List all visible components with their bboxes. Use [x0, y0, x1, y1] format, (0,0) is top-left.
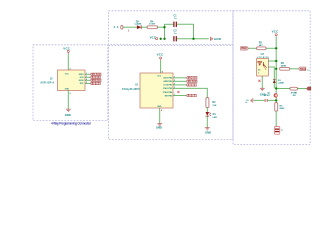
U1 right pin numbers: [174, 76, 175, 96]
svg-text:VCC: VCC: [65, 74, 70, 76]
svg-text:1n: 1n: [245, 102, 247, 104]
no-connect X on pin PB4: [177, 91, 179, 93]
polarized capacitor C5: [274, 127, 279, 135]
junction at VCC column: [163, 26, 165, 28]
global label RST: [90, 82, 101, 85]
wire U1 pin PB0: [173, 80, 186, 82]
ground symbol (LED chain): [205, 128, 210, 130]
ground symbol (U3): [260, 88, 265, 90]
wire VCC to U1: [160, 60, 162, 73]
junction rail/R6: [275, 68, 277, 70]
wire J5 pin MISO: [85, 73, 90, 75]
sheet border box: left programming connector section: [33, 45, 108, 121]
wire U1 pin PB2: [173, 77, 186, 79]
wire U1 pin PB5: [173, 95, 186, 97]
power symbol VCC: [67, 50, 69, 53]
svg-text:VCC: VCC: [157, 76, 162, 78]
ground symbol rotated (C3): [251, 98, 253, 102]
power symbol VCC (left end of rail): [156, 38, 158, 40]
wire J5 pin MOSI: [85, 79, 90, 81]
power symbol VCC: [160, 57, 162, 60]
sheet border box: right fan-driver section: [233, 11, 310, 145]
junction VCC column to rail: [163, 38, 165, 40]
svg-text:LED: LED: [213, 117, 218, 119]
diode D3: [273, 80, 276, 83]
svg-text:10K: 10K: [212, 105, 216, 107]
wire J5 pin RST: [85, 82, 90, 84]
connector J4 pin circle: [121, 25, 123, 29]
wire C3 tap: [268, 99, 277, 101]
ground symbol: [66, 109, 71, 111]
svg-text:GND: GND: [214, 37, 221, 41]
global label MISO: [90, 73, 101, 76]
svg-text:100R: 100R: [149, 24, 156, 26]
wire VCC rail vertical: [275, 37, 277, 94]
global label OUT (filled): [306, 87, 311, 90]
ground symbol (U1): [157, 124, 162, 126]
svg-text:OC1A/PB1: OC1A/PB1: [163, 84, 172, 87]
wire R3 to VCC rail: [266, 47, 276, 49]
wire J5 pin SCK: [85, 76, 90, 78]
resistor R8: [290, 87, 298, 90]
svg-text:4 Way Programming Connector: 4 Way Programming Connector: [51, 121, 92, 125]
diode D5: [137, 25, 141, 29]
capacitor C3: [265, 99, 267, 102]
wire D1 to GND: [206, 116, 208, 127]
transistor Q1: [274, 94, 278, 98]
resistor R3: [257, 47, 266, 50]
global label MOSI: [186, 77, 197, 80]
svg-text:XTAL2/PB4: XTAL2/PB4: [163, 91, 173, 94]
wire Q1 emitter to R5: [275, 97, 277, 102]
svg-text:ATtiny25-20PU: ATtiny25-20PU: [122, 88, 140, 91]
wire J5 to GND: [67, 91, 69, 109]
svg-text:RST: RST: [188, 95, 196, 97]
svg-text:ADC1/PB2: ADC1/PB2: [163, 77, 172, 80]
wire U3 cathode to GND: [261, 76, 263, 88]
svg-text:BC817: BC817: [264, 95, 271, 97]
svg-text:VCC: VCC: [63, 46, 71, 50]
wire D5 to R4: [141, 26, 147, 28]
resistor R4: [147, 26, 157, 29]
wire U1 pin PB1: [173, 84, 186, 86]
sheet border box: top power-input section: [109, 11, 234, 45]
svg-text:VCC: VCC: [272, 29, 280, 33]
resistor R2: [206, 98, 209, 108]
wire R2 to D1: [206, 108, 208, 112]
wire C1 right: [177, 23, 194, 25]
global label SCK: [186, 84, 197, 87]
wire PWM to R3: [249, 47, 257, 49]
svg-text:VCC: VCC: [150, 35, 157, 39]
wire J4 to D5: [123, 26, 137, 28]
wire VCC to J5: [67, 54, 69, 70]
sheet border box: middle MCU section: [109, 45, 234, 139]
svg-text:LL4148: LL4148: [135, 23, 142, 26]
wire VCC rail left of C2: [158, 38, 173, 40]
svg-text:GND: GND: [65, 113, 71, 117]
LED D1: [206, 112, 210, 116]
wire to C1 left: [165, 23, 174, 25]
svg-text:J4: J4: [114, 25, 119, 29]
junction emitter/bottom: [275, 87, 277, 89]
wire vertical right column: [193, 24, 195, 39]
wire to R8: [276, 88, 290, 90]
connector J5 body: [58, 70, 86, 91]
svg-text:SCK: SCK: [188, 85, 196, 87]
svg-text:GND: GND: [205, 131, 211, 135]
wire U1 to GND: [159, 108, 161, 123]
capacitor C1: [174, 22, 176, 27]
capacitor C2: [174, 36, 176, 41]
svg-text:AVR-ISP-6: AVR-ISP-6: [40, 82, 54, 85]
junction C3 tap: [275, 99, 277, 101]
wire U3 emitter: [268, 67, 274, 88]
svg-text:MISO: MISO: [188, 81, 197, 83]
svg-text:JP_FAN: JP_FAN: [291, 91, 298, 94]
junction collector/rail: [275, 60, 277, 62]
svg-text:XTAL1/PB3: XTAL1/PB3: [163, 87, 173, 90]
global label TACH: [298, 67, 305, 71]
svg-text:680R: 680R: [281, 65, 287, 67]
wire vertical VCC column: [164, 24, 166, 39]
global label MISO: [186, 80, 197, 83]
svg-text:MOSI: MOSI: [79, 80, 84, 82]
wire R5 to output cap: [275, 111, 277, 126]
svg-text:AREF/PB0: AREF/PB0: [163, 80, 172, 83]
no-connect X on U3 pin: [258, 80, 260, 82]
svg-text:MISO: MISO: [79, 74, 84, 76]
junction right column to rail: [192, 38, 194, 40]
U3 internal LED symbol: [257, 61, 266, 70]
resistor R6: [280, 67, 290, 70]
wire R4 to node: [158, 26, 165, 28]
wire R6 to TACH label: [290, 68, 299, 70]
global label SCK: [90, 76, 101, 79]
IC U1 body: [140, 73, 173, 108]
svg-text:TACH: TACH: [300, 68, 306, 71]
global label MOSI: [90, 79, 101, 82]
global label RST: [186, 94, 197, 97]
wire rail right of C2 to GND flag: [177, 38, 209, 40]
wire R8 to OUT label: [298, 88, 307, 90]
optocoupler U3 body: [257, 59, 269, 77]
svg-text:GND: GND: [156, 126, 162, 130]
svg-text:RST: RST: [92, 83, 100, 85]
global label PWM: [241, 47, 249, 51]
wire C3 to ground: [254, 99, 265, 101]
svg-text:SCK: SCK: [80, 77, 85, 79]
resistor R5: [275, 103, 278, 112]
svg-text:PWM: PWM: [241, 48, 246, 50]
svg-text:MOSI: MOSI: [188, 78, 197, 80]
power symbol VCC: [275, 34, 277, 37]
svg-text:RST/PB5: RST/PB5: [165, 95, 173, 97]
svg-text:GND: GND: [157, 106, 162, 108]
junction R3/rail: [275, 47, 277, 49]
wire U1 pin PB3 to R2: [173, 88, 207, 97]
svg-text:LL4148: LL4148: [278, 81, 285, 84]
J5 right pin numbers: [86, 73, 87, 84]
svg-text:VCC: VCC: [157, 53, 165, 57]
wire U3 collector to rail: [268, 60, 276, 62]
svg-text:GND: GND: [65, 88, 70, 90]
power symbol GND (right end of rail): [211, 37, 212, 41]
